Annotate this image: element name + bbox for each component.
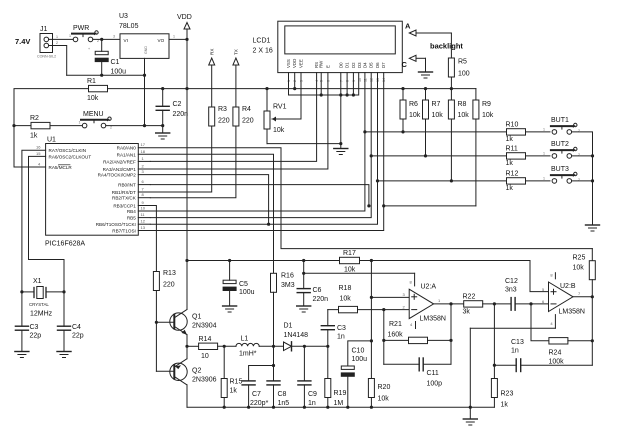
svg-text:10k: 10k: [273, 127, 285, 134]
resistor R15: [221, 346, 227, 407]
svg-text:12: 12: [141, 219, 146, 224]
wire MENU to ground node: [106, 125, 163, 127]
wire R9 row: [384, 205, 476, 207]
node junction C2 top: [161, 87, 164, 90]
node junction R7 bus: [424, 87, 427, 90]
op-amp U2:A LM358N: [409, 273, 433, 328]
node junction D7 R9 row: [382, 204, 385, 207]
node junction U2B minus: [529, 302, 532, 305]
node junction C1 bottom: [100, 74, 103, 77]
svg-text:10: 10: [141, 206, 146, 211]
svg-text:BUT2: BUT2: [551, 141, 569, 148]
wire RB1 stub: [138, 191, 150, 193]
resistor R17: [340, 257, 360, 263]
wire bottom ground bus: [187, 406, 494, 408]
wire RB4 stub: [138, 210, 150, 212]
wire RA3 stub: [138, 168, 150, 170]
capacitor C11: [384, 358, 451, 371]
backlight arrow A: [409, 30, 451, 36]
svg-text:10k: 10k: [409, 112, 421, 119]
svg-text:VDD: VDD: [177, 14, 192, 21]
node junction C10 tap: [370, 339, 373, 342]
wire LCD VEE to RV1 wiper: [272, 73, 301, 119]
node junction RV1 top bus: [265, 87, 268, 90]
wire LCD E to RA3: [150, 73, 328, 169]
svg-text:D1: D1: [345, 62, 350, 68]
svg-text:R1: R1: [87, 78, 96, 85]
node junction BUT3 gnd column: [591, 179, 594, 182]
wire U2B V- to ground riser: [470, 327, 555, 329]
capacitor C2: [156, 89, 169, 126]
crystal X1: [22, 287, 64, 299]
node junction bus C7: [247, 406, 250, 409]
node junction bias riser: [370, 259, 373, 262]
wire Q2 base: [156, 370, 174, 372]
wire LCD D5 to RB5: [150, 73, 371, 218]
resistor R6: [400, 89, 406, 132]
svg-text:13: 13: [141, 225, 146, 230]
svg-text:U2:A: U2:A: [421, 284, 437, 291]
LCD pin numbers: [287, 78, 386, 82]
wire output column: [450, 304, 452, 364]
node junction R5 R8 bus: [450, 87, 453, 90]
node junction R2 MCLR: [12, 124, 15, 127]
svg-text:100u: 100u: [352, 356, 368, 363]
svg-text:10k: 10k: [573, 265, 585, 272]
node junction Q1 base: [155, 321, 158, 324]
svg-text:RB7/T1OSI: RB7/T1OSI: [112, 229, 136, 234]
node junction VDD VO: [185, 38, 188, 41]
wire R5 bottom to bus: [450, 77, 452, 89]
wire BUT1 to ground column: [572, 132, 593, 225]
svg-text:1k: 1k: [506, 185, 514, 192]
node junction bus C8: [272, 406, 275, 409]
resistor R13: [153, 272, 159, 291]
transistor Q2 2N3906: [170, 346, 187, 407]
svg-text:10k: 10k: [344, 267, 356, 274]
LCD pin names: [286, 59, 386, 68]
svg-text:C8: C8: [278, 391, 287, 398]
wire U2 ground riser: [469, 328, 471, 407]
svg-text:GND: GND: [144, 46, 148, 54]
node junction emitters R14: [185, 345, 188, 348]
node junction L1 D1 R16: [272, 345, 275, 348]
wire C10 branch: [348, 341, 372, 366]
resistor R5: [448, 58, 454, 77]
svg-text:RA2/AN2/VREF: RA2/AN2/VREF: [103, 159, 136, 164]
svg-text:R5: R5: [458, 59, 467, 66]
ground under C4: [57, 352, 71, 358]
svg-text:R25: R25: [573, 255, 586, 262]
resistor R10: [507, 129, 526, 135]
svg-text:RA6/OSC2/CLKOUT: RA6/OSC2/CLKOUT: [49, 154, 92, 159]
wire R23 column: [493, 304, 495, 379]
resistor R3: [209, 107, 215, 126]
svg-text:10k: 10k: [458, 112, 470, 119]
wire LCD RS to RA2: [150, 73, 316, 162]
svg-text:17: 17: [141, 142, 146, 147]
node junction bus R20: [370, 406, 373, 409]
capacitor C8: [267, 346, 280, 407]
wire RB0 stub: [138, 184, 150, 186]
svg-text:R16: R16: [281, 273, 294, 280]
svg-text:R22: R22: [463, 294, 476, 301]
node junction U2B out: [591, 295, 594, 298]
svg-text:RV1: RV1: [273, 104, 287, 111]
wire R3 to RB1: [150, 126, 211, 192]
node junction D4 BUT1 row: [363, 130, 366, 133]
svg-text:L1: L1: [241, 336, 249, 343]
svg-text:D2: D2: [351, 62, 356, 68]
svg-text:backlight: backlight: [430, 42, 463, 51]
ground under C2: [156, 126, 170, 139]
svg-text:J1: J1: [40, 26, 48, 33]
node junction D5 BUT2 row: [370, 154, 373, 157]
node junction C2 bottom: [161, 124, 164, 127]
svg-text:160k: 160k: [388, 332, 404, 339]
svg-text:LM358N: LM358N: [559, 309, 585, 316]
svg-text:C11: C11: [427, 370, 439, 377]
node junction bus R15: [223, 406, 226, 409]
node junction crystal right: [62, 290, 65, 293]
resistor R4: [233, 107, 239, 126]
node junction C9 top: [303, 345, 306, 348]
resistor R25: [589, 249, 595, 297]
wire LCD VDD pin to bus: [294, 73, 296, 89]
wire VDD column down to analog bus: [186, 39, 188, 260]
svg-text:C12: C12: [505, 278, 518, 285]
U1 right pin names: [96, 146, 137, 234]
wire BUT2 to ground column: [572, 155, 593, 157]
ground under C3: [15, 352, 29, 358]
svg-text:D0: D0: [338, 62, 343, 68]
inductor L1: [236, 343, 259, 346]
resistor R12: [507, 178, 526, 184]
svg-text:RB3/CCP1: RB3/CCP1: [113, 204, 136, 209]
wire RA1 row to R16 column: [138, 154, 273, 273]
wire RA2 stub: [138, 160, 150, 162]
svg-text:RB5: RB5: [127, 216, 136, 221]
pushbutton MENU: [81, 117, 111, 128]
svg-text:RA3/AN3/CMP1: RA3/AN3/CMP1: [103, 167, 137, 172]
capacitor C4 22p: [58, 292, 71, 352]
svg-text:R11: R11: [506, 146, 518, 153]
svg-text:220n: 220n: [173, 111, 189, 118]
node junction minus col: [382, 308, 385, 311]
wire RA6 OSC2 to crystal: [29, 156, 65, 292]
svg-text:RA7/OSC1/CLKIN: RA7/OSC1/CLKIN: [49, 148, 87, 153]
wire minus column down: [383, 310, 385, 365]
wire R16 bottom to D1 node: [273, 292, 275, 346]
svg-text:C7: C7: [252, 391, 261, 398]
svg-text:BUT1: BUT1: [551, 117, 569, 124]
node junction R7 BUT2 row: [424, 154, 427, 157]
capacitor C12: [511, 298, 548, 311]
svg-text:220: 220: [242, 118, 254, 125]
svg-text:D5: D5: [369, 62, 374, 68]
svg-text:15: 15: [36, 151, 41, 156]
resistor R14: [199, 343, 218, 349]
node junction bus R19: [326, 406, 329, 409]
svg-text:1: 1: [56, 35, 58, 39]
wire RA7 OSC1 to crystal: [22, 150, 46, 292]
node junction bus C9: [303, 406, 306, 409]
svg-text:R8: R8: [458, 101, 467, 108]
wire U3 VO to VDD: [169, 38, 187, 40]
svg-text:RB2/TX/CK: RB2/TX/CK: [112, 196, 137, 201]
svg-text:1n5: 1n5: [278, 400, 290, 407]
node junction D6 BUT3 row: [376, 179, 379, 182]
node junction LCD VDD: [293, 87, 296, 90]
capacitor C6: [297, 261, 310, 307]
wire C1 column top: [101, 39, 103, 51]
svg-text:RB6/T1OSO/T1CKI: RB6/T1OSO/T1CKI: [96, 222, 136, 227]
svg-text:R24: R24: [549, 350, 562, 357]
backlight arrow C: [409, 55, 425, 61]
wire RV1 bottom to D0 ground: [267, 143, 341, 145]
svg-text:1k: 1k: [30, 133, 38, 140]
svg-text:100: 100: [458, 71, 470, 78]
svg-text:22p: 22p: [30, 333, 42, 340]
resistor R19: [325, 346, 331, 407]
node junction R21 right: [449, 339, 452, 342]
node junction bus gnd riser: [469, 406, 472, 409]
wire ground row J1 to U3 GND: [67, 74, 145, 76]
node junction C1 top: [100, 38, 103, 41]
svg-text:RB1/RX/DT: RB1/RX/DT: [112, 190, 136, 195]
node junction C3 R19: [326, 345, 329, 348]
svg-text:R3: R3: [218, 106, 227, 113]
svg-text:VEE: VEE: [299, 59, 304, 68]
capacitor C7: [242, 366, 273, 408]
node junction RA4 RB6: [267, 223, 270, 226]
wire R11 to BUT2: [526, 155, 551, 157]
wire LCD D7 to RB7: [150, 73, 383, 231]
svg-text:U2:B: U2:B: [560, 283, 576, 290]
wire U2B output: [573, 296, 592, 298]
svg-text:10k: 10k: [340, 296, 352, 303]
svg-text:R7: R7: [432, 101, 441, 108]
svg-text:R13: R13: [163, 270, 176, 277]
wire BUT3 to ground column: [572, 180, 593, 182]
node junction U2A plus input: [370, 296, 373, 299]
node junction D2 rail: [352, 93, 355, 96]
transistor Q1 2N3904: [170, 261, 187, 347]
wire RB3 to R13: [138, 206, 156, 272]
wire A to R5: [450, 33, 452, 58]
node junction R8 BUT3 row: [450, 179, 453, 182]
svg-text:D7: D7: [381, 62, 386, 68]
wire LCD VSS to ground rail: [289, 73, 359, 95]
ground under C5: [223, 306, 237, 312]
svg-text:22p: 22p: [72, 333, 84, 340]
resistor R24: [549, 338, 592, 344]
U1 pin numbers: [36, 142, 146, 230]
svg-text:X1: X1: [33, 278, 42, 285]
node junction R24 right: [591, 339, 594, 342]
svg-text:2N3906: 2N3906: [192, 377, 217, 384]
ground buttons: [586, 225, 600, 231]
wire post-R17 bias line: [360, 261, 549, 292]
svg-text:1k: 1k: [501, 402, 509, 409]
svg-text:RW: RW: [319, 60, 324, 68]
wire R4 to RB2: [150, 126, 236, 198]
resistor R2: [31, 122, 50, 128]
node junction R15 top: [223, 345, 226, 348]
svg-text:U1: U1: [47, 137, 56, 144]
svg-text:VDD: VDD: [292, 59, 297, 68]
pushbutton BUT1: [551, 123, 580, 134]
node junction C5 bus: [228, 259, 231, 262]
svg-text:C9: C9: [308, 391, 317, 398]
power VDD symbol: [184, 23, 190, 40]
node junction RB0 R9 row: [367, 204, 370, 207]
wire R14 to L1: [218, 345, 236, 347]
wire C1 bottom: [101, 62, 103, 76]
wire U2A plus input: [371, 296, 409, 298]
capacitor C10 (electrolytic): [341, 366, 354, 407]
svg-text:100u: 100u: [111, 69, 127, 76]
svg-text:VI: VI: [124, 38, 128, 43]
wire J1 pin2 to ground row: [49, 46, 67, 76]
regulator U3 78L05: [120, 34, 169, 59]
svg-text:3: 3: [113, 35, 115, 39]
LCD LCD1: [278, 21, 403, 72]
ground main bus: [463, 407, 477, 425]
node junction U2A out: [449, 302, 452, 305]
svg-text:220: 220: [218, 118, 230, 125]
resistor R11: [507, 153, 526, 159]
ground backlight C: [419, 58, 433, 78]
wire RB0 row: [150, 185, 369, 206]
capacitor C3 1n (filter): [321, 310, 334, 347]
svg-text:E: E: [325, 65, 330, 68]
svg-text:1k: 1k: [506, 160, 514, 167]
svg-text:R14: R14: [199, 336, 212, 343]
node junction U3 gnd menu row: [143, 124, 146, 127]
wire RB2 stub: [138, 197, 150, 199]
svg-text:10: 10: [201, 353, 209, 360]
node junction crystal left: [20, 290, 23, 293]
svg-text:10k: 10k: [87, 95, 99, 102]
svg-text:R9: R9: [482, 101, 491, 108]
svg-text:C3: C3: [337, 325, 346, 332]
capacitor C5 (electrolytic): [223, 261, 236, 307]
signal arrow RX: [209, 58, 215, 107]
svg-text:1: 1: [173, 35, 175, 39]
svg-text:RA4/TOCKI/CMP2: RA4/TOCKI/CMP2: [98, 173, 137, 178]
wire R18 row minus input: [328, 309, 409, 311]
diode D1 1N4148: [284, 342, 292, 351]
svg-text:R21: R21: [389, 321, 402, 328]
svg-text:VO: VO: [158, 38, 165, 43]
wire R21 row: [384, 339, 451, 341]
svg-text:R2: R2: [30, 115, 39, 122]
svg-text:3n3: 3n3: [505, 287, 517, 294]
wire BUT3 row: [378, 180, 507, 182]
svg-text:78L05: 78L05: [119, 23, 139, 30]
resistor R20: [368, 379, 374, 408]
node junction bus C10: [346, 406, 349, 409]
svg-text:18: 18: [141, 149, 146, 154]
svg-text:2: 2: [56, 41, 58, 45]
wire R22 right to node: [483, 303, 511, 305]
svg-text:C3: C3: [30, 324, 39, 331]
resistor R18: [339, 306, 358, 312]
svg-text:CRYSTAL: CRYSTAL: [29, 302, 49, 307]
wire LCD D2 to rail: [352, 73, 354, 95]
svg-text:220n: 220n: [313, 296, 329, 303]
svg-text:LM358N: LM358N: [420, 316, 446, 323]
node junction R6 BUT1 row: [401, 130, 404, 133]
IC U1 PIC16F628A: [46, 144, 139, 236]
svg-text:MENU: MENU: [83, 111, 104, 118]
svg-text:100k: 100k: [549, 359, 565, 366]
node junction D0 rail: [339, 93, 342, 96]
svg-text:R15: R15: [230, 379, 243, 386]
wire LCD D1 to rail: [346, 73, 348, 95]
potentiometer RV1: [264, 89, 280, 144]
wire RB7 stub: [138, 230, 150, 232]
svg-text:TX: TX: [234, 49, 239, 55]
svg-text:C: C: [402, 60, 408, 69]
wire VDD bus: [108, 88, 476, 90]
node junction D1 rail: [346, 93, 349, 96]
svg-text:U3: U3: [119, 13, 128, 20]
svg-text:RA1/AN1: RA1/AN1: [117, 152, 137, 157]
capacitor C9: [298, 346, 311, 407]
svg-text:12MHz: 12MHz: [30, 311, 53, 318]
capacitor C13: [494, 359, 592, 372]
svg-text:C2: C2: [173, 101, 182, 108]
svg-text:A: A: [405, 22, 411, 31]
svg-text:R6: R6: [409, 101, 418, 108]
wire LCD D4 to RB4: [150, 73, 365, 211]
pushbutton PWR: [72, 31, 98, 42]
wire Q1 base: [156, 321, 174, 323]
svg-text:220: 220: [163, 282, 175, 289]
svg-text:D4: D4: [362, 62, 367, 68]
wire RB5 stub: [138, 217, 150, 219]
wire RA0 row: [138, 148, 592, 249]
node junction C6 V+ tap: [302, 272, 305, 275]
wire RA4 row: [138, 175, 268, 225]
node junction C7 C8: [272, 364, 275, 367]
wire MCLR net left segment: [14, 89, 89, 167]
wire R12 to BUT3: [526, 180, 551, 182]
resistor R16: [271, 273, 277, 292]
svg-text:1k: 1k: [506, 136, 514, 143]
wire LCD D6 to RB6: [150, 73, 377, 225]
wire BUT1 row: [365, 131, 507, 133]
wire R14 row: [187, 345, 199, 347]
svg-text:16: 16: [36, 145, 41, 150]
svg-text:10k: 10k: [482, 112, 494, 119]
svg-text:C10: C10: [352, 348, 365, 355]
node junction BUT2 gnd column: [591, 154, 594, 157]
svg-text:1mH*: 1mH*: [239, 351, 257, 358]
svg-text:RB0/INT: RB0/INT: [118, 183, 136, 188]
svg-text:Q1: Q1: [192, 314, 201, 321]
svg-text:1n: 1n: [511, 348, 519, 355]
svg-text:1: 1: [543, 152, 545, 156]
svg-text:BUT3: BUT3: [551, 166, 569, 173]
resistor R1: [89, 85, 108, 91]
svg-text:VSS: VSS: [286, 59, 291, 68]
node junction R21 left: [382, 339, 385, 342]
svg-text:C4: C4: [72, 324, 81, 331]
svg-text:+: +: [88, 47, 90, 51]
